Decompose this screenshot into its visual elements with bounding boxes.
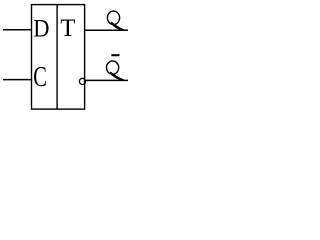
inversion bubble: [79, 78, 85, 84]
flip-flop U1 body: [32, 5, 85, 110]
wire C clock input: [3, 79, 32, 81]
wire Q output: [85, 29, 128, 31]
svg-text:T: T: [60, 13, 75, 42]
svg-text:D: D: [33, 13, 49, 42]
wire Q-bar output: [86, 79, 128, 81]
svg-text:C: C: [33, 61, 47, 93]
cell divider: [56, 5, 58, 110]
node Q-bar: [107, 55, 124, 81]
wire D input: [3, 29, 32, 31]
node Q: [107, 11, 124, 31]
